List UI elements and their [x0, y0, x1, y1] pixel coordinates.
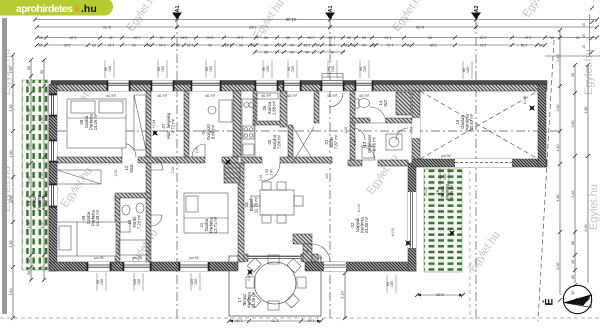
svg-text:4.72 m²: 4.72 m² [171, 118, 176, 133]
doormat at entry [322, 74, 343, 81]
svg-text:É: É [543, 298, 556, 305]
svg-text:30: 30 [406, 43, 410, 47]
svg-text:90: 90 [157, 67, 161, 71]
svg-text:10: 10 [372, 43, 376, 47]
svg-text:80: 80 [330, 50, 334, 54]
svg-text:50: 50 [27, 66, 31, 70]
svg-text:90: 90 [287, 67, 291, 71]
svg-text:15: 15 [39, 43, 43, 47]
svg-text:2.80: 2.80 [436, 293, 443, 297]
svg-text:pm 90: pm 90 [261, 94, 270, 98]
svg-text:1.40: 1.40 [108, 43, 115, 47]
bathroom 10 fixtures [119, 240, 149, 255]
svg-text:150: 150 [363, 66, 367, 72]
svg-text:60: 60 [362, 43, 366, 47]
svg-text:7.20 m²: 7.20 m² [137, 214, 142, 229]
svg-text:1.20: 1.20 [187, 43, 194, 47]
svg-text:e: e [74, 3, 80, 15]
logo [0, 0, 1, 1]
compass [0, 0, 1, 1]
svg-text:2.10: 2.10 [171, 167, 175, 174]
svg-text:85: 85 [264, 50, 268, 54]
property boundary dashed [538, 40, 554, 321]
svg-text:60: 60 [290, 43, 294, 47]
svg-text:150: 150 [443, 174, 447, 180]
gepeszet 13 [386, 134, 402, 150]
svg-text:10: 10 [316, 43, 320, 47]
svg-text:2.10: 2.10 [259, 175, 263, 182]
terrace 18 (left, green hatch) [22, 80, 48, 270]
svg-text:80: 80 [571, 241, 575, 245]
logo aprohirdetes.hu [0, 0, 113, 16]
svg-text:23.80 m²: 23.80 m² [364, 216, 369, 233]
svg-text:150: 150 [466, 67, 470, 73]
svg-text:80: 80 [305, 50, 309, 54]
svg-text:pm 90: pm 90 [189, 256, 198, 260]
svg-text:2.10: 2.10 [344, 127, 348, 134]
svg-text:10.06: 10.06 [523, 96, 527, 105]
svg-text:90: 90 [205, 67, 209, 71]
svg-text:14.49 m²: 14.49 m² [95, 209, 100, 226]
svg-text:90: 90 [262, 67, 266, 71]
exterior walls [51, 81, 547, 85]
svg-text:60: 60 [462, 68, 466, 72]
svg-text:1.00: 1.00 [27, 177, 31, 184]
section lines dash-dot [176, 20, 178, 318]
svg-text:15: 15 [582, 34, 586, 38]
terrace 16 (right of nappali, green hatch) [424, 169, 462, 272]
terrace 17 (bottom, white) [229, 256, 321, 316]
svg-text:1.40: 1.40 [225, 43, 232, 47]
svg-text:14.26 m²: 14.26 m² [93, 113, 98, 130]
svg-text:2.50: 2.50 [181, 35, 188, 39]
svg-text:2.05: 2.05 [430, 43, 437, 47]
garage X [420, 91, 538, 159]
svg-text:1.60: 1.60 [9, 289, 13, 296]
windows bottom wall A [87, 262, 210, 271]
svg-text:90: 90 [428, 35, 432, 39]
windows in top wall (white gaps + glazing lines) [107, 81, 374, 92]
svg-text:2.05: 2.05 [480, 35, 487, 39]
svg-text:pm 90: pm 90 [157, 94, 166, 98]
svg-text:150: 150 [137, 279, 141, 285]
svg-text:Egylet.hu: Egylet.hu [588, 184, 600, 230]
svg-text:1.00: 1.00 [27, 144, 31, 151]
svg-text:60: 60 [362, 35, 366, 39]
svg-text:9.84 m²: 9.84 m² [41, 195, 46, 210]
svg-text:12.71 m²: 12.71 m² [213, 216, 218, 233]
svg-text:Közl.: Közl. [129, 163, 134, 172]
svg-text:30: 30 [571, 73, 575, 77]
green terraces [22, 80, 462, 316]
svg-text:85: 85 [286, 35, 290, 39]
svg-text:15: 15 [582, 23, 586, 27]
svg-text:2.20: 2.20 [341, 291, 345, 298]
svg-text:7.60: 7.60 [248, 25, 257, 30]
svg-text:-0.03: -0.03 [247, 274, 251, 282]
window bottom wall B [324, 262, 346, 271]
svg-text:14.26 m²: 14.26 m² [251, 291, 256, 308]
svg-text:90: 90 [40, 70, 44, 74]
wc 14 [359, 99, 370, 108]
left scan bar [2, 18, 7, 314]
svg-text:30: 30 [539, 43, 543, 47]
svg-text:1.00: 1.00 [159, 43, 166, 47]
svg-text:±0.03: ±0.03 [424, 188, 428, 197]
svg-text:150: 150 [331, 66, 335, 72]
svg-text:1.60: 1.60 [9, 151, 13, 158]
kitchen 04 counter [242, 99, 255, 157]
svg-text:90: 90 [239, 43, 243, 47]
svg-text:1.00: 1.00 [9, 67, 13, 74]
svg-text:aprohirdetes: aprohirdetes [16, 3, 73, 15]
bed room 11 [184, 193, 228, 233]
svg-text:1.35: 1.35 [265, 169, 269, 176]
svg-text:15: 15 [147, 43, 151, 47]
interior partitions top row [146, 91, 412, 162]
svg-text:1.20: 1.20 [40, 173, 44, 180]
svg-text:1.50: 1.50 [27, 222, 31, 229]
svg-text:+0.54: +0.54 [152, 120, 156, 129]
svg-text:A2: A2 [474, 5, 480, 12]
garage door opening [455, 159, 512, 167]
svg-text:3.60: 3.60 [571, 121, 575, 128]
terrace 17 round table + chairs [254, 262, 296, 304]
svg-text:3.60: 3.60 [556, 105, 560, 112]
svg-text:8.06 m²: 8.06 m² [449, 184, 454, 199]
dining table 03 [260, 190, 294, 215]
svg-text:±0.00: ±0.00 [357, 204, 361, 213]
svg-text:1.00: 1.00 [236, 319, 243, 323]
svg-text:6.55 m²: 6.55 m² [372, 136, 377, 151]
svg-text:90: 90 [386, 282, 390, 286]
svg-text:90: 90 [132, 43, 136, 47]
svg-text:90: 90 [359, 67, 363, 71]
bed room 09 [57, 222, 116, 256]
svg-text:90: 90 [96, 280, 100, 284]
svg-text:15: 15 [251, 43, 255, 47]
svg-text:1.05: 1.05 [521, 43, 528, 47]
svg-text:pm 90: pm 90 [94, 256, 103, 260]
svg-text:90: 90 [439, 175, 443, 179]
interior partitions bottom row [115, 163, 244, 262]
svg-text:3.40: 3.40 [556, 55, 560, 62]
svg-text:15: 15 [351, 43, 355, 47]
svg-text:1.00: 1.00 [308, 319, 315, 323]
svg-text:2.40: 2.40 [480, 43, 487, 47]
svg-text:15: 15 [576, 35, 580, 39]
svg-text:10: 10 [278, 43, 282, 47]
compass (north arrow) [543, 285, 592, 313]
svg-text:100: 100 [325, 173, 329, 179]
svg-text:1.80: 1.80 [134, 35, 141, 39]
svg-text:2.10: 2.10 [114, 170, 118, 177]
svg-text:8.86 m²: 8.86 m² [211, 124, 216, 139]
building [49, 74, 547, 272]
kamra shelves 05 [257, 93, 278, 99]
svg-text:pm 90: pm 90 [287, 94, 296, 98]
svg-text:30: 30 [39, 35, 43, 39]
bed room 08 [67, 99, 126, 148]
svg-text:A1: A1 [175, 5, 181, 12]
svg-text:1.20: 1.20 [329, 35, 336, 39]
svg-text:150: 150 [291, 66, 295, 72]
svg-text:50: 50 [27, 271, 31, 275]
svg-text:3.40: 3.40 [556, 145, 560, 152]
svg-text:15: 15 [571, 260, 575, 264]
svg-text:150: 150 [209, 66, 213, 72]
svg-text:2.10: 2.10 [195, 147, 199, 154]
svg-text:30: 30 [344, 43, 348, 47]
svg-text:120: 120 [190, 279, 194, 285]
svg-text:150: 150 [266, 66, 270, 72]
svg-text:90: 90 [318, 257, 322, 261]
svg-text:1.05: 1.05 [304, 43, 311, 47]
svg-text:4.50: 4.50 [40, 117, 44, 124]
svg-text:4.80: 4.80 [584, 107, 588, 114]
svg-text:150: 150 [161, 66, 165, 72]
svg-text:1.50: 1.50 [27, 109, 31, 116]
svg-text:7.86 m²: 7.86 m² [277, 134, 282, 149]
svg-text:1.00: 1.00 [329, 43, 336, 47]
svg-text:6.30: 6.30 [584, 225, 588, 232]
desk room 06 [219, 100, 232, 122]
svg-text:15: 15 [176, 43, 180, 47]
svg-text:120: 120 [133, 279, 137, 285]
hall floor X [293, 127, 314, 162]
svg-text:4.80: 4.80 [556, 195, 560, 202]
svg-text:6.30: 6.30 [556, 263, 560, 270]
svg-text:150: 150 [100, 279, 104, 285]
svg-text:90: 90 [264, 35, 268, 39]
svg-text:pm 90: pm 90 [327, 94, 336, 98]
svg-text:1.40: 1.40 [385, 35, 392, 39]
svg-text:.hu: .hu [81, 3, 97, 15]
svg-text:90: 90 [327, 67, 331, 71]
svg-text:4.00: 4.00 [40, 222, 44, 229]
svg-text:3.40: 3.40 [571, 191, 575, 198]
svg-text:2.10: 2.10 [353, 139, 357, 146]
svg-text:2.10: 2.10 [410, 127, 414, 134]
svg-text:1.50: 1.50 [9, 241, 13, 248]
mid horizontal wall [57, 157, 408, 166]
svg-text:90: 90 [264, 43, 268, 47]
svg-text:A1: A1 [328, 5, 334, 12]
svg-text:30: 30 [208, 43, 212, 47]
svg-text:15: 15 [27, 82, 31, 86]
svg-text:1.88 m²: 1.88 m² [272, 100, 277, 115]
svg-text:15: 15 [27, 259, 31, 263]
svg-text:24.30: 24.30 [285, 17, 296, 22]
svg-text:pm 90: pm 90 [441, 154, 450, 158]
svg-text:60: 60 [290, 50, 294, 54]
svg-text:pm 90: pm 90 [106, 94, 115, 98]
windows in left wall [49, 94, 57, 208]
svg-text:1.10: 1.10 [237, 35, 244, 39]
svg-text:90: 90 [40, 266, 44, 270]
svg-text:1.50: 1.50 [9, 105, 13, 112]
svg-text:pm 90: pm 90 [359, 94, 368, 98]
elevation stars [149, 102, 537, 277]
door arcs [122, 93, 408, 262]
svg-text:1.50: 1.50 [9, 196, 13, 203]
svg-text:1.00: 1.00 [308, 35, 315, 39]
svg-text:±0.00: ±0.00 [391, 228, 395, 237]
entry steps [224, 163, 240, 183]
svg-text:2.00: 2.00 [207, 35, 214, 39]
svg-text:50: 50 [550, 35, 554, 39]
svg-text:8.35: 8.35 [415, 25, 424, 30]
svg-text:150: 150 [108, 66, 112, 72]
svg-text:pm 90: pm 90 [132, 256, 141, 260]
svg-text:2.90: 2.90 [64, 43, 71, 47]
svg-text:30: 30 [347, 35, 351, 39]
furniture [57, 91, 538, 310]
svg-text:150: 150 [194, 279, 198, 285]
svg-text:15: 15 [160, 35, 164, 39]
svg-text:150: 150 [390, 281, 394, 287]
svg-text:8.70: 8.70 [102, 25, 111, 30]
svg-text:15: 15 [582, 45, 586, 49]
svg-text:20.57 m²: 20.57 m² [469, 113, 474, 130]
svg-text:1.10: 1.10 [525, 35, 532, 39]
svg-text:30: 30 [571, 291, 575, 295]
svg-text:WC: WC [383, 100, 388, 107]
svg-text:90: 90 [92, 43, 96, 47]
svg-text:4.20: 4.20 [70, 35, 77, 39]
svg-text:2.70: 2.70 [272, 319, 279, 323]
svg-text:11.79 m²: 11.79 m² [254, 196, 259, 213]
svg-text:80: 80 [571, 275, 575, 279]
svg-text:1.10: 1.10 [387, 43, 394, 47]
svg-text:7.87 m²: 7.87 m² [334, 134, 339, 149]
svg-text:pm 90: pm 90 [205, 94, 214, 98]
svg-text:30: 30 [109, 35, 113, 39]
svg-text:90: 90 [104, 67, 108, 71]
svg-text:2.40: 2.40 [270, 169, 274, 176]
